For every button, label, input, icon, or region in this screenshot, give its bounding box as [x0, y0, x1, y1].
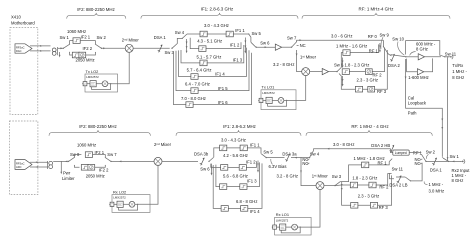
- wire Cal loopback: [406, 59, 443, 157]
- brace RF TX: [302, 13, 450, 19]
- NC stub TX: [297, 45, 299, 47]
- svg-text:RFSoC: RFSoC: [16, 161, 25, 165]
- svg-text:2.3 - 3 GHz: 2.3 - 3 GHz: [358, 194, 379, 199]
- svg-text:DSA 3b: DSA 3b: [194, 151, 209, 156]
- svg-text:1 MHz - 1.6 GHz: 1 MHz - 1.6 GHz: [336, 43, 367, 48]
- wire LO1 to 1st mixer RX: [300, 190, 320, 227]
- filter IF2 1 RX: [85, 152, 92, 158]
- wire IF1 row6: [174, 51, 252, 104]
- svg-text:NC: NC: [300, 43, 306, 48]
- svg-text:IF1 5: IF1 5: [218, 86, 228, 91]
- svg-text:IF2 1: IF2 1: [95, 150, 105, 155]
- switch throw arrows TX IF1 left: [186, 39, 188, 52]
- svg-text:1 MHz -: 1 MHz -: [452, 69, 467, 74]
- svg-text:Sw 6: Sw 6: [200, 167, 210, 172]
- svg-text:IF2: 880-2250 MHz: IF2: 880-2250 MHz: [77, 7, 115, 12]
- amplifier TX RF: [322, 69, 328, 75]
- svg-text:Sw 2: Sw 2: [426, 150, 436, 155]
- svg-text:4.2 - 5.6 GHz: 4.2 - 5.6 GHz: [223, 153, 248, 158]
- amplifier 1-600MHz TX: [417, 69, 423, 75]
- port Tx/Rx: [445, 56, 449, 58]
- svg-text:IF1 6: IF1 6: [218, 100, 228, 105]
- svg-text:IF1 1: IF1 1: [235, 28, 245, 33]
- svg-text:IF2 1: IF2 1: [81, 35, 91, 40]
- svg-text:Limiter: Limiter: [62, 176, 75, 181]
- wire Lumped to Sw2: [409, 152, 421, 154]
- svg-text:IF2 2: IF2 2: [99, 167, 109, 172]
- svg-text:2.3 - 3 GHz: 2.3 - 3 GHz: [357, 78, 378, 83]
- wire: [80, 41, 95, 45]
- wire DSA1: [426, 160, 449, 162]
- svg-text:3.2 - 8 GHz: 3.2 - 8 GHz: [273, 62, 294, 67]
- wire: [86, 52, 96, 55]
- svg-text:Tx LO1: Tx LO1: [262, 85, 275, 90]
- RFSoC DAC block: [15, 44, 32, 53]
- filter IF1 4: [191, 74, 198, 80]
- wire amp to Sw7: [282, 46, 292, 48]
- svg-text:Sw 7: Sw 7: [287, 36, 297, 41]
- filter IF1 6: [186, 102, 193, 108]
- svg-text:5.7 - 6.4 GHz: 5.7 - 6.4 GHz: [187, 67, 212, 72]
- svg-text:DSA 1: DSA 1: [430, 167, 443, 172]
- filter IF2 2 RX (two boxes): [81, 165, 88, 171]
- wire RF1 row RX: [340, 162, 389, 182]
- wire LO2 to 2nd mixer: [111, 52, 130, 83]
- filter Lumped RX: [391, 149, 393, 153]
- svg-text:RF 1: RF 1: [369, 48, 379, 53]
- wire amp to Sw8: [329, 71, 337, 73]
- svg-text:1060 MHz: 1060 MHz: [67, 29, 86, 34]
- svg-text:Sw 3: Sw 3: [165, 50, 175, 55]
- wire junction down to 1st mixer RX: [301, 158, 316, 186]
- svg-text:Sw 9: Sw 9: [380, 32, 390, 37]
- svg-text:IF1 2: IF1 2: [230, 42, 240, 47]
- svg-text:2050 MHz: 2050 MHz: [76, 58, 95, 63]
- wire Sw5 to DSA3a: [266, 157, 284, 159]
- ground stub arrow: [59, 52, 61, 56]
- svg-text:Sw 1: Sw 1: [450, 154, 460, 159]
- svg-text:RF 3: RF 3: [379, 205, 389, 210]
- svg-text:IF1: 2.8-6.2 MHz: IF1: 2.8-6.2 MHz: [223, 124, 256, 129]
- svg-text:Sw 4: Sw 4: [175, 30, 185, 35]
- svg-text:Sw 3: Sw 3: [332, 174, 342, 179]
- svg-text:IF1 3: IF1 3: [247, 178, 257, 183]
- port Rx2: [449, 160, 461, 162]
- wire IF1 row3 RX: [216, 162, 260, 186]
- svg-text:3.0 - 4.3 GHz: 3.0 - 4.3 GHz: [221, 137, 246, 142]
- svg-text:5.6 - 6.8 GHz: 5.6 - 6.8 GHz: [223, 173, 248, 178]
- svg-text:5.1 - 5.7 GHz: 5.1 - 5.7 GHz: [197, 55, 222, 60]
- svg-text:Rx LO1: Rx LO1: [276, 212, 289, 217]
- wire IF1 row2: [190, 38, 241, 49]
- svg-text:IF1 2: IF1 2: [246, 159, 256, 164]
- brace IF2 TX: [67, 13, 126, 19]
- svg-text:Pwr: Pwr: [63, 170, 71, 175]
- wire IF1 row3: [181, 45, 244, 63]
- balun RX: [49, 161, 53, 168]
- svg-text:3.0 - 4.3 GHz: 3.0 - 4.3 GHz: [204, 23, 229, 28]
- amplifier TX IF1: [275, 44, 281, 50]
- wire Sw7 to 2nd mixer RX: [111, 160, 154, 162]
- svg-text:LMX2572: LMX2572: [276, 219, 289, 223]
- filter RF 2 RX (two boxes): [350, 182, 357, 188]
- svg-text:1-600 MHz: 1-600 MHz: [408, 75, 428, 80]
- filter IF2 2 TX (two elements): [72, 52, 79, 58]
- svg-text:Loopback: Loopback: [408, 100, 427, 105]
- wire Sw7 down to 1st mixer: [297, 51, 302, 72]
- wire IF1 row1: [187, 33, 249, 35]
- wire Sw11 to RF bank risers: [389, 173, 405, 178]
- svg-text:Tx LO2: Tx LO2: [86, 69, 99, 74]
- svg-text:6.4 - 7.0 GHz: 6.4 - 7.0 GHz: [185, 81, 210, 86]
- filter IF1 1 (two boxes): [200, 31, 207, 37]
- filter IF1 1 RX (two boxes): [220, 145, 227, 151]
- filter IF1 3 RX (two boxes): [220, 184, 227, 190]
- svg-text:IF1: 2.8-6.3 GHz: IF1: 2.8-6.3 GHz: [201, 7, 233, 12]
- filter IF1 2 RX (two boxes): [221, 165, 228, 171]
- svg-text:4.3 - 5.1 GHz: 4.3 - 5.1 GHz: [197, 39, 222, 44]
- brace IF1 TX: [141, 13, 298, 19]
- filter IF1 3: [200, 60, 207, 66]
- wire IF1 row4 RX: [213, 163, 262, 208]
- filter RF 3 RX (two boxes): [351, 203, 358, 209]
- svg-text:7.0 - 8.0 GHz: 7.0 - 8.0 GHz: [181, 96, 206, 101]
- svg-text:6.3V Bias: 6.3V Bias: [269, 164, 287, 169]
- wire TxRx down to RX Sw1: [447, 58, 449, 162]
- filter IF1 2: [199, 46, 206, 52]
- svg-text:Sw 7: Sw 7: [107, 152, 117, 157]
- wire IF1 row5: [176, 50, 249, 90]
- svg-text:1.8 - 2.3 GHz: 1.8 - 2.3 GHz: [345, 62, 370, 67]
- svg-text:3.2 - 8 GHz: 3.2 - 8 GHz: [277, 173, 298, 178]
- wire differential pair RX: [30, 162, 48, 167]
- svg-text:IF2 2: IF2 2: [83, 46, 93, 51]
- RFSoC ADC block: [15, 160, 32, 170]
- svg-text:DSA 1: DSA 1: [154, 35, 167, 40]
- svg-text:IF1 4: IF1 4: [250, 209, 260, 214]
- switch throw arrows RX IF1 right: [257, 161, 259, 172]
- wire lowband drop from Sw2: [411, 163, 422, 181]
- wire balun to Sw8: [53, 160, 68, 162]
- svg-text:ADC: ADC: [16, 165, 22, 169]
- svg-text:3.0 MHz: 3.0 MHz: [429, 188, 445, 193]
- svg-text:DSA 2 LB: DSA 2 LB: [389, 183, 407, 188]
- svg-text:1.8 - 2.3 GHz: 1.8 - 2.3 GHz: [352, 176, 377, 181]
- svg-text:8 GHz: 8 GHz: [452, 75, 464, 80]
- filter RF 1 TX: [343, 50, 350, 56]
- svg-text:1 MHz -: 1 MHz -: [429, 182, 444, 187]
- svg-text:X410: X410: [11, 15, 21, 20]
- wire LO1 to 1st mixer: [287, 76, 306, 101]
- wire mixer to DSA3b: [162, 160, 198, 162]
- svg-text:DSA 2 HB: DSA 2 HB: [371, 143, 390, 148]
- filter RF 2 TX (two boxes): [342, 69, 349, 75]
- svg-text:LMX2572: LMX2572: [262, 91, 275, 95]
- X410 motherboard box TX: [10, 27, 38, 114]
- switch throw arrows TX IF1 right: [244, 38, 246, 53]
- wire RF3 row TX: [344, 50, 387, 89]
- wire RF 0 bypass line TX: [297, 40, 384, 42]
- power limiter: [60, 161, 62, 172]
- svg-text:RFSoC: RFSoC: [16, 45, 25, 49]
- wire LO2 to 2nd mixer RX: [138, 166, 158, 205]
- wire RF2 row RX: [335, 173, 388, 185]
- brace IF2 RX: [49, 130, 150, 136]
- svg-text:6.8 - 8 GHz: 6.8 - 8 GHz: [236, 199, 257, 204]
- wire IF1 row2 RX: [211, 161, 257, 167]
- svg-text:DSA 2: DSA 2: [388, 63, 401, 68]
- brace RF RX: [306, 130, 432, 136]
- svg-text:Rx LO2: Rx LO2: [113, 189, 126, 194]
- svg-text:LMX2572: LMX2572: [113, 196, 126, 200]
- attenuator DSA 2 LB RX: [397, 175, 402, 183]
- svg-text:RF: 1 MHz - 4 GHz: RF: 1 MHz - 4 GHz: [351, 124, 388, 129]
- svg-text:Sw 10: Sw 10: [392, 37, 404, 42]
- svg-text:Sw 1: Sw 1: [60, 35, 70, 40]
- svg-text:RF: 1 MHz-4 GHz: RF: 1 MHz-4 GHz: [359, 7, 394, 12]
- svg-text:RF 1: RF 1: [378, 160, 388, 165]
- wire mid amp path: [406, 56, 418, 58]
- svg-text:Sw 11: Sw 11: [445, 51, 457, 56]
- wire IF1 row4: [179, 48, 247, 77]
- svg-text:Sw 2: Sw 2: [97, 35, 107, 40]
- svg-text:3.0 - 6 GHz: 3.0 - 6 GHz: [331, 33, 352, 38]
- svg-text:RF 0: RF 0: [368, 34, 378, 39]
- svg-text:IF2: 880-2250 MHz: IF2: 880-2250 MHz: [79, 124, 117, 129]
- svg-text:Sw 5: Sw 5: [263, 149, 273, 154]
- svg-text:IF1 3: IF1 3: [233, 57, 243, 62]
- filter RF 3 TX (two boxes): [355, 86, 362, 92]
- svg-text:NC: NC: [415, 161, 421, 166]
- wire RF2 row TX: [344, 48, 385, 72]
- wire Sw6 to amp: [256, 46, 275, 48]
- svg-text:Path: Path: [408, 110, 417, 115]
- brace IF1 RX: [176, 130, 301, 136]
- wire bypass loop top TX output: [406, 41, 440, 56]
- wire Sw2 to 2nd mixer: [102, 47, 126, 49]
- svg-text:RF 2: RF 2: [379, 185, 389, 190]
- svg-text:Motherboard: Motherboard: [11, 21, 35, 26]
- svg-text:Tx/Rx: Tx/Rx: [452, 63, 464, 68]
- wire IF1 row1 RX: [214, 148, 261, 157]
- svg-text:Lumped: Lumped: [395, 151, 407, 155]
- svg-text:1060 MHz: 1060 MHz: [77, 142, 96, 147]
- filter IF1 5: [191, 88, 198, 94]
- wire mixer to amp: [310, 71, 322, 73]
- svg-text:8 GHz: 8 GHz: [416, 47, 428, 52]
- svg-text:Sw 5: Sw 5: [252, 31, 262, 36]
- svg-text:2050 MHz: 2050 MHz: [86, 174, 105, 179]
- filter IF1 4 RX (two boxes): [221, 206, 228, 212]
- wire RF0 top line RX: [314, 149, 391, 151]
- svg-text:3.0 - 8 GHz: 3.0 - 8 GHz: [333, 142, 354, 147]
- wire DSA3a to Sw4: [291, 157, 310, 159]
- svg-text:DAC: DAC: [16, 49, 22, 53]
- balun TX: [52, 48, 56, 55]
- filter IF2 1 TX: [73, 38, 80, 44]
- svg-text:8 GHz: 8 GHz: [452, 178, 464, 183]
- svg-text:LMX2572: LMX2572: [86, 75, 99, 79]
- wire differential pair TX: [30, 46, 51, 51]
- filter RF 1 RX: [362, 162, 369, 168]
- wire RF3 row RX: [342, 175, 392, 205]
- wire balun to Sw1: [58, 47, 63, 49]
- wire mixer to DSA1: [133, 47, 170, 49]
- wire bottom amp loop: [407, 59, 418, 72]
- svg-text:IF1 4: IF1 4: [215, 71, 225, 76]
- svg-text:Sw 11: Sw 11: [392, 166, 404, 171]
- svg-text:Sw 6: Sw 6: [260, 41, 270, 46]
- svg-text:IF1 1: IF1 1: [250, 142, 260, 147]
- svg-text:RF 3: RF 3: [377, 89, 387, 94]
- wire RF1 row TX: [344, 44, 379, 52]
- X410 motherboard box RX: [9, 121, 38, 195]
